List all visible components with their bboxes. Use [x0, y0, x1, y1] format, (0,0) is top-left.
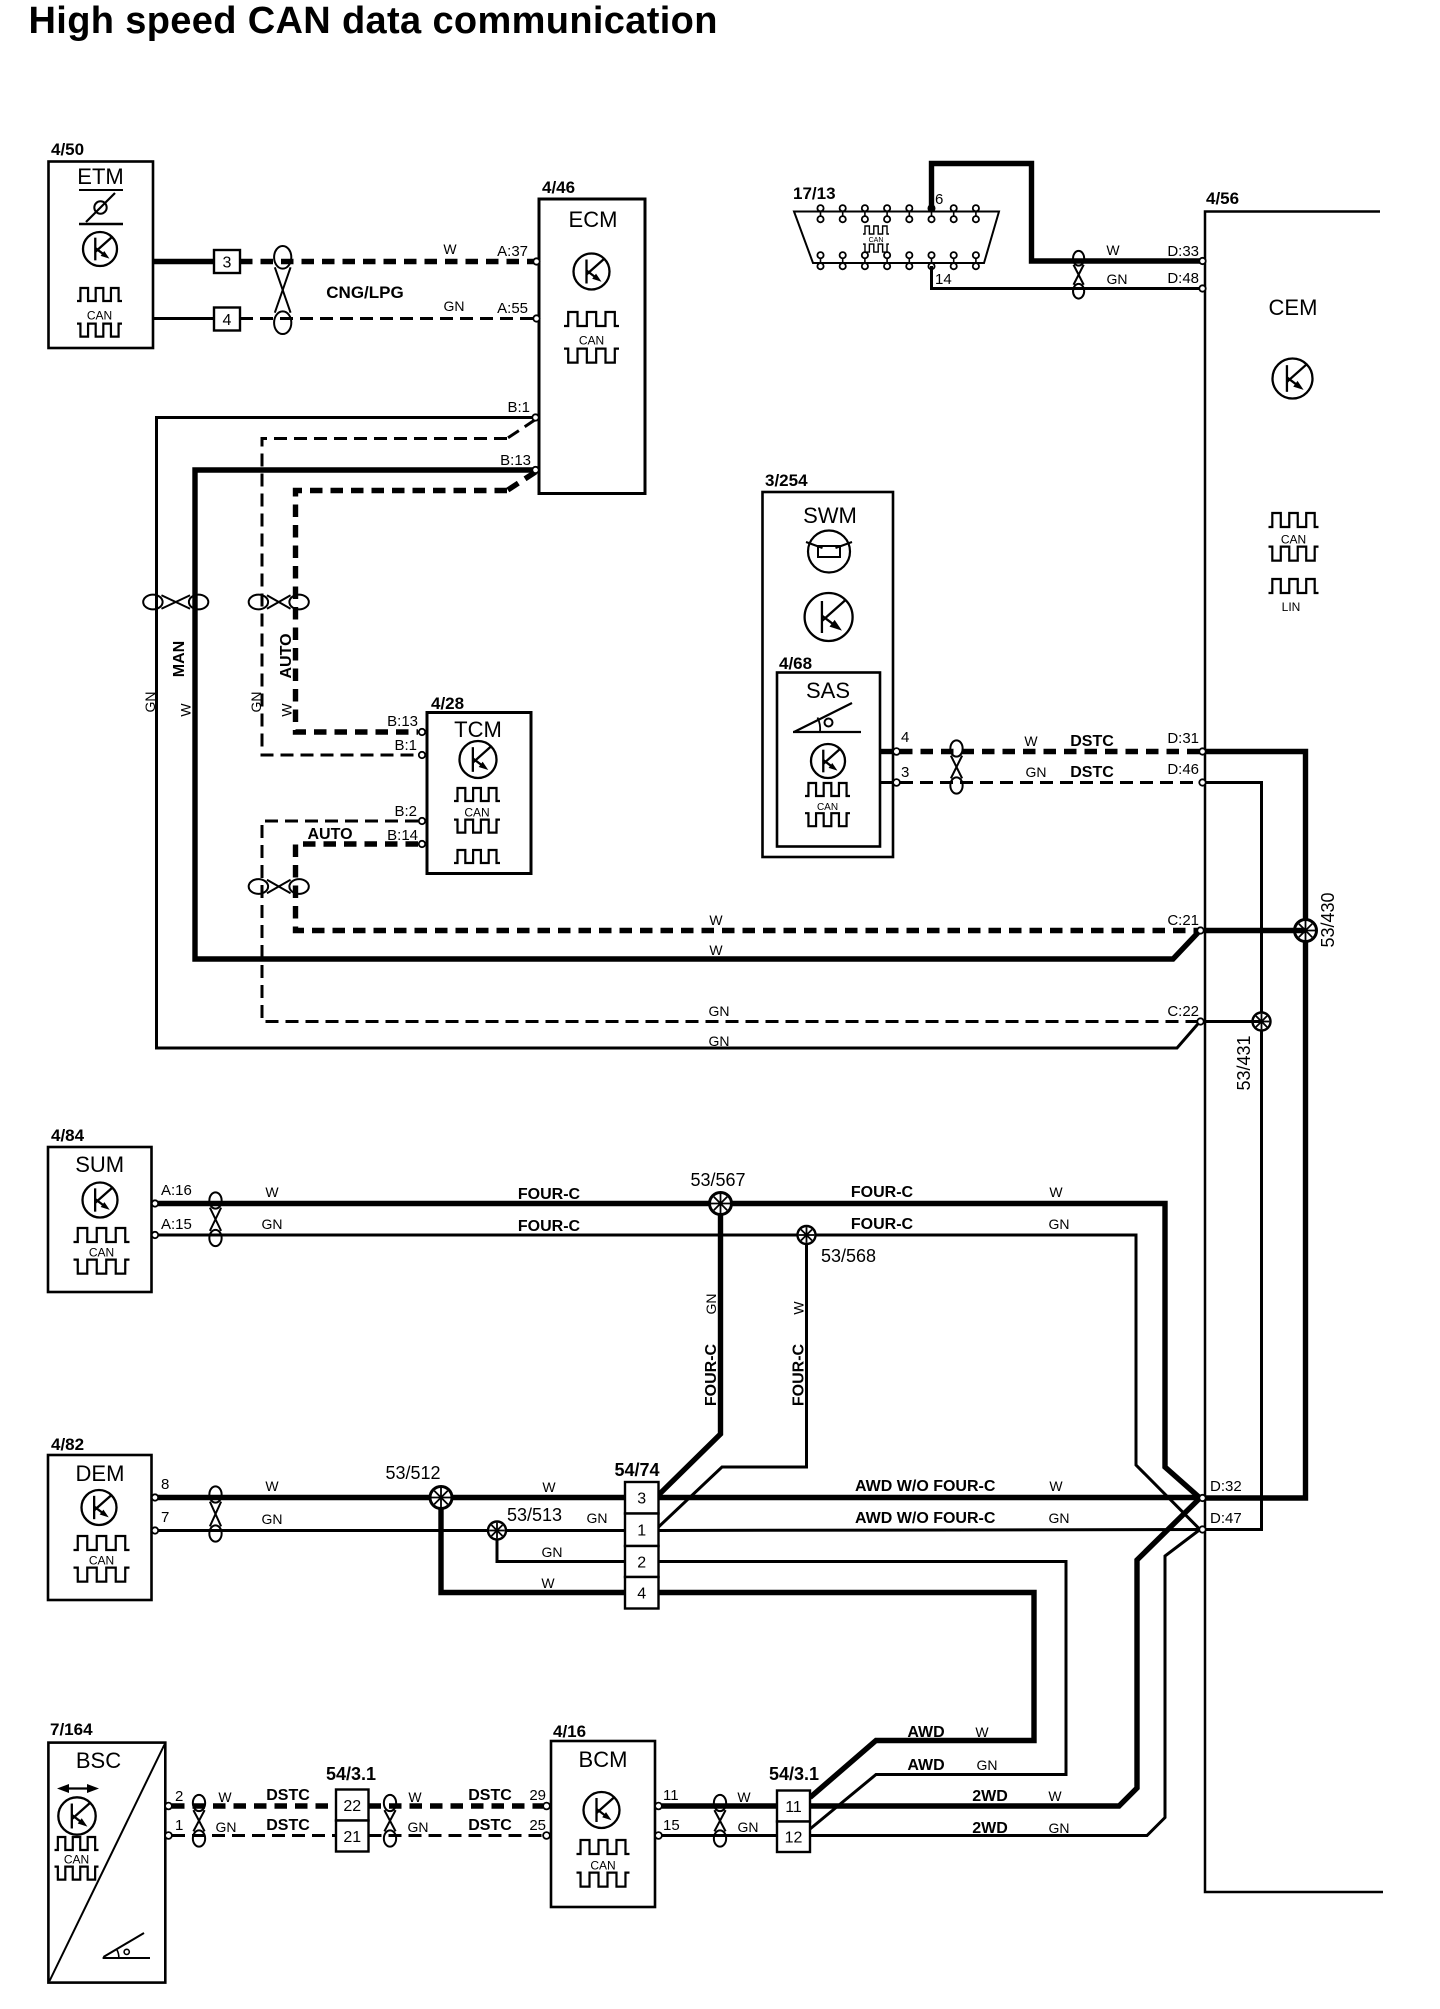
label A:15: [161, 1216, 192, 1233]
label DSTC (GN right): [468, 1817, 512, 1834]
connector 54/3.1 label (left): [326, 1764, 376, 1784]
label FOUR-C (W right): [851, 1184, 914, 1201]
label GN (DEM): [262, 1511, 283, 1527]
ETM throttle symbol: [79, 193, 123, 224]
label 53/431: [1234, 1035, 1254, 1090]
svg-text:GN: GN: [216, 1819, 237, 1835]
label GN (dashed C:22): [709, 1003, 730, 1019]
DEM pin 8: [152, 1494, 158, 1500]
svg-text:A:16: A:16: [161, 1182, 192, 1199]
label 2WD (W): [972, 1788, 1008, 1805]
ECM control-unit symbol: [574, 254, 610, 290]
svg-text:GN: GN: [248, 692, 264, 713]
svg-text:AWD: AWD: [907, 1724, 944, 1741]
connector 54/74 pin 1: [625, 1514, 659, 1547]
twisted pair CNG/LPG: [274, 246, 291, 334]
svg-text:4: 4: [901, 729, 909, 746]
BSC CAN symbol: [55, 1837, 99, 1880]
BCM module 4/16 box: [551, 1741, 655, 1907]
svg-text:2: 2: [637, 1554, 646, 1571]
svg-text:AWD W/O FOUR-C: AWD W/O FOUR-C: [855, 1478, 996, 1495]
ECM module 4/46 label: [542, 178, 575, 197]
twisted pair DSTC (SAS): [950, 740, 962, 793]
SAS control-unit symbol: [811, 744, 845, 778]
svg-text:GN: GN: [1049, 1820, 1070, 1836]
label A:16: [161, 1182, 192, 1199]
label pin 7: [161, 1509, 169, 1526]
SUM module 4/84 box: [48, 1147, 152, 1292]
wire C:22 to splice 53/431: [1204, 1020, 1262, 1023]
svg-text:CAN: CAN: [89, 1554, 114, 1568]
ECM module 4/46 box: [539, 199, 645, 494]
svg-text:ECM: ECM: [569, 207, 618, 232]
svg-text:AWD: AWD: [907, 1757, 944, 1774]
connector 54/3.1 pin 12: [777, 1822, 810, 1853]
DEM control-unit symbol: [82, 1490, 117, 1525]
wire W FOUR-C splice to CEM D:32: [731, 1204, 1200, 1499]
svg-text:4: 4: [223, 312, 232, 329]
wire W AUTO stub at ECM B:13: [507, 472, 536, 491]
label W (DSTC right): [408, 1789, 422, 1805]
label GN (AWD): [977, 1757, 998, 1773]
svg-text:22: 22: [343, 1798, 361, 1815]
SWM module 3/254 box: [763, 492, 894, 857]
label W (AWD): [975, 1724, 989, 1740]
label W (2WD): [1048, 1788, 1062, 1804]
svg-text:D:31: D:31: [1167, 730, 1199, 747]
wire W DSTC dashed to CEM D:31: [900, 749, 1200, 754]
svg-text:W: W: [178, 703, 194, 717]
label W (DEM): [265, 1478, 279, 1494]
svg-text:4/56: 4/56: [1206, 189, 1239, 208]
label W (D:33): [1106, 242, 1120, 258]
svg-text:12: 12: [785, 1830, 803, 1847]
wire ETM pin3 stub (W): [153, 259, 214, 264]
wire GN AUTO stub at ECM B:1: [507, 420, 536, 439]
svg-text:53/430: 53/430: [1318, 892, 1338, 947]
svg-text:11: 11: [785, 1799, 802, 1816]
svg-text:CEM: CEM: [1269, 295, 1318, 320]
connector 17/13 label: [793, 184, 836, 203]
svg-text:53/568: 53/568: [821, 1246, 876, 1266]
connector 54/74 pin 3: [625, 1482, 659, 1514]
wire GN AWD W/O FOUR-C to CEM D:47: [659, 1530, 1201, 1531]
svg-text:A:37: A:37: [497, 243, 528, 260]
svg-text:53/513: 53/513: [507, 1505, 562, 1525]
svg-text:B:1: B:1: [394, 737, 417, 754]
wire W CNG/LPG dashed to ECM A:37: [240, 259, 534, 264]
svg-text:TCM: TCM: [454, 717, 502, 742]
svg-text:W: W: [1048, 1788, 1062, 1804]
label GN (drop): [703, 1294, 719, 1315]
BCM pin 25: [543, 1832, 550, 1839]
label pin 1 (BSC): [175, 1817, 183, 1834]
DEM pin 7: [152, 1527, 158, 1533]
svg-text:53/512: 53/512: [385, 1463, 440, 1483]
svg-text:DSTC: DSTC: [468, 1787, 512, 1804]
wire W 54/74 pin4 to AWD W: [659, 1593, 1035, 1798]
svg-text:DSTC: DSTC: [266, 1787, 310, 1804]
svg-text:3: 3: [637, 1491, 646, 1508]
twisted pair BCM: [714, 1795, 726, 1847]
BSC angle-sensor symbol: [103, 1933, 150, 1958]
CEM module 4/56 outline: [1205, 212, 1383, 1893]
connector 54/3.1 pin 11: [777, 1791, 810, 1822]
svg-text:4/82: 4/82: [51, 1435, 84, 1454]
svg-text:ETM: ETM: [77, 164, 123, 189]
svg-text:LIN: LIN: [1282, 600, 1301, 614]
ETM module 4/50 label: [51, 140, 84, 159]
CEM pin C:21: [1197, 927, 1203, 933]
SUM control-unit symbol: [83, 1183, 118, 1218]
BSC double-arrow symbol: [57, 1784, 99, 1793]
label W (SUM): [265, 1184, 279, 1200]
SAS module 4/68 box: [777, 673, 880, 847]
wire W FOUR-C drop to 54/74 pin1: [659, 1244, 807, 1527]
twisted pair SUM: [209, 1192, 221, 1246]
ETM pin 3: [214, 250, 240, 273]
svg-text:C:22: C:22: [1167, 1003, 1199, 1020]
label AWD W/O FOUR-C (W): [855, 1478, 996, 1495]
label W: [443, 241, 457, 257]
label B:13: [500, 452, 531, 469]
label FOUR-C (drop left): [703, 1343, 720, 1406]
ETM module 4/50 box: [49, 162, 154, 349]
twisted pair DSTC (BSC): [193, 1795, 205, 1847]
wire GN 17/13 pin14 to CEM D:48: [932, 266, 1201, 289]
label A:37: [497, 243, 528, 260]
CEM pin D:33: [1199, 258, 1205, 264]
label 2WD (GN): [972, 1820, 1008, 1837]
svg-text:W: W: [265, 1184, 279, 1200]
svg-text:GN: GN: [587, 1510, 608, 1526]
svg-text:W: W: [265, 1478, 279, 1494]
connector 54/3.1 pin 22: [336, 1790, 369, 1821]
CEM pin D:46: [1199, 779, 1205, 785]
twisted pair AUTO upper: [249, 595, 309, 610]
connector 17/13 outline: [794, 212, 999, 264]
17/13 mini CAN symbol: [863, 226, 889, 252]
svg-text:FOUR-C: FOUR-C: [851, 1184, 914, 1201]
label GN (2WD): [1049, 1820, 1070, 1836]
svg-text:3: 3: [223, 254, 232, 271]
svg-text:GN: GN: [1049, 1216, 1070, 1232]
svg-text:GN: GN: [709, 1003, 730, 1019]
SWM module 3/254 label: [765, 471, 808, 490]
svg-text:CAN: CAN: [64, 1853, 89, 1867]
svg-text:GN: GN: [542, 1544, 563, 1560]
svg-text:GN: GN: [262, 1216, 283, 1232]
svg-text:GN: GN: [1049, 1510, 1070, 1526]
wire GN AUTO dashed TCM B:2 to CEM C:22: [262, 821, 1200, 1022]
svg-text:W: W: [737, 1789, 751, 1805]
label GN (MAN): [142, 692, 158, 713]
label GN (mid): [587, 1510, 608, 1526]
label GN (AWD W/O): [1049, 1510, 1070, 1526]
label D:47: [1210, 1510, 1242, 1527]
CEM pin D:31: [1199, 748, 1205, 754]
svg-text:D:46: D:46: [1167, 761, 1199, 778]
SAS pin 4: [893, 748, 900, 755]
label A:55: [497, 300, 528, 317]
CEM pin D:47: [1199, 1526, 1205, 1532]
svg-text:D:47: D:47: [1210, 1510, 1242, 1527]
connector 54/74 pin 2: [625, 1546, 659, 1577]
label B:13 (TCM): [387, 713, 418, 730]
label pin 8: [161, 1476, 169, 1493]
label pin 14: [935, 271, 952, 288]
CEM module 4/56 label: [1206, 189, 1239, 208]
BSC module 7/164 label: [50, 1720, 93, 1739]
splice 53/568: [798, 1226, 816, 1244]
splice 53/430: [1295, 920, 1317, 942]
label W (mid): [542, 1479, 556, 1495]
label 29: [529, 1787, 546, 1804]
DEM module 4/82 box: [48, 1455, 152, 1600]
label 53/430: [1318, 892, 1338, 947]
wire ETM pin4 stub (GN): [153, 317, 214, 320]
svg-text:W: W: [279, 703, 295, 717]
label GN (BCM): [738, 1819, 759, 1835]
svg-text:C:21: C:21: [1167, 912, 1199, 929]
connector 54/3.1 label (right): [769, 1764, 819, 1784]
label AWD (W): [907, 1724, 944, 1741]
label 53/512: [385, 1463, 440, 1483]
wire W DSTC 54/3.1 to BCM pin29: [369, 1803, 544, 1808]
svg-text:54/3.1: 54/3.1: [326, 1764, 376, 1784]
label B:1 (TCM): [394, 737, 417, 754]
svg-text:B:13: B:13: [387, 713, 418, 730]
BSC name: [76, 1748, 121, 1773]
label D:31: [1167, 730, 1199, 747]
TCM CAN symbol: [454, 788, 500, 833]
svg-text:W: W: [1024, 733, 1038, 749]
CEM control-unit symbol: [1273, 359, 1313, 399]
label pin 6: [935, 191, 943, 208]
svg-text:1: 1: [175, 1817, 183, 1834]
BSC pin 2: [165, 1803, 172, 1810]
svg-text:W: W: [542, 1479, 556, 1495]
TCM module 4/28 label: [431, 694, 464, 713]
wire GN BCM pin15 to 54/3.1 pin12: [662, 1834, 777, 1837]
svg-text:53/431: 53/431: [1234, 1035, 1254, 1090]
svg-text:4: 4: [637, 1586, 646, 1603]
svg-text:17/13: 17/13: [793, 184, 836, 203]
wire SAS pin3 stub: [880, 781, 894, 784]
BCM name: [579, 1747, 628, 1772]
svg-text:2WD: 2WD: [972, 1788, 1008, 1805]
TCM pin B:14: [419, 841, 425, 847]
svg-text:D:33: D:33: [1167, 243, 1199, 260]
BCM pin 29: [543, 1803, 550, 1810]
label AUTO upper: [278, 633, 295, 678]
BCM CAN symbol: [577, 1840, 630, 1887]
CEM LIN symbol: [1269, 579, 1319, 614]
svg-text:FOUR-C: FOUR-C: [518, 1218, 581, 1235]
label W (pin4 row): [541, 1575, 555, 1591]
svg-text:W: W: [1049, 1184, 1063, 1200]
svg-text:GN: GN: [703, 1294, 719, 1315]
label C:21: [1167, 912, 1199, 929]
label 53/568: [821, 1246, 876, 1266]
ETM control-unit symbol: [83, 232, 117, 266]
wire W AWD W/O FOUR-C to CEM D:32: [659, 1495, 1201, 1500]
BCM control-unit symbol: [584, 1792, 620, 1828]
wire W DEM pin8 to 54/74 pin3: [158, 1495, 625, 1500]
svg-text:7/164: 7/164: [50, 1720, 93, 1739]
svg-text:CAN: CAN: [1281, 533, 1306, 547]
CEM pin C:22: [1197, 1018, 1203, 1024]
SAS pin 3: [893, 779, 900, 786]
svg-text:2WD: 2WD: [972, 1820, 1008, 1837]
wire GN 2WD 54/3.1 pin12 to CEM D:47: [810, 1530, 1200, 1836]
svg-text:D:32: D:32: [1210, 1478, 1242, 1495]
SUM module 4/84 label: [51, 1126, 85, 1145]
label W (AWD W/O): [1049, 1478, 1063, 1494]
svg-text:A:55: A:55: [497, 300, 528, 317]
svg-text:W: W: [443, 241, 457, 257]
wire GN AUTO dashed ECM B:1 to TCM B:1: [262, 439, 507, 756]
label AWD W/O FOUR-C (GN): [855, 1510, 996, 1527]
label FOUR-C (W left): [518, 1186, 581, 1203]
svg-text:CAN: CAN: [590, 1859, 615, 1873]
ECM pin A:55: [533, 315, 539, 321]
ECM pin B:13: [532, 467, 538, 473]
svg-text:53/567: 53/567: [690, 1170, 745, 1190]
TCM module 4/28 box: [427, 713, 531, 874]
wire W DSTC BSC to 54/3.1 pin22: [172, 1803, 336, 1808]
BSC module 7/164 box: [48, 1743, 165, 1983]
label GN (DSTC left): [216, 1819, 237, 1835]
label FOUR-C (drop right): [791, 1343, 808, 1406]
TCM pin B:13: [419, 729, 425, 735]
svg-text:W: W: [1106, 242, 1120, 258]
svg-text:FOUR-C: FOUR-C: [791, 1343, 808, 1406]
label D:48: [1167, 270, 1199, 287]
svg-text:W: W: [975, 1724, 989, 1740]
wire GN 54/74 pin2 to AWD GN: [659, 1562, 1067, 1830]
svg-text:FOUR-C: FOUR-C: [851, 1216, 914, 1233]
label AWD (GN): [907, 1757, 944, 1774]
svg-text:7: 7: [161, 1509, 169, 1526]
wire W 17/13 pin6 to CEM D:33: [932, 164, 1201, 262]
SAS CAN symbol: [805, 783, 850, 826]
ECM pin B:1: [532, 414, 538, 420]
svg-text:DSTC: DSTC: [1070, 764, 1114, 781]
svg-text:BSC: BSC: [76, 1748, 121, 1773]
svg-text:CAN: CAN: [869, 237, 884, 244]
svg-text:D:48: D:48: [1167, 270, 1199, 287]
label pin 2 (BSC): [175, 1788, 183, 1805]
wire C:21 to splice 53/430: [1204, 928, 1306, 933]
SUM CAN symbol: [74, 1228, 130, 1274]
svg-text:CAN: CAN: [89, 1246, 114, 1260]
wire GN FOUR-C splice to CEM D:47: [815, 1235, 1200, 1530]
label GN (solid C:22): [709, 1033, 730, 1049]
svg-text:4/16: 4/16: [553, 1722, 586, 1741]
TCM control-unit symbol: [460, 741, 497, 778]
TCM extra pulse symbol: [454, 850, 500, 863]
SAS angle-sensor symbol: [793, 703, 861, 732]
label DSTC (W left): [266, 1787, 310, 1804]
connector 54/74 pin 4: [625, 1577, 659, 1609]
label GN (DSTC right): [408, 1819, 429, 1835]
svg-text:FOUR-C: FOUR-C: [703, 1343, 720, 1406]
wire GN MAN from ECM B:1: [157, 418, 1201, 1049]
svg-text:GN: GN: [262, 1511, 283, 1527]
wire GN DSTC BSC to 54/3.1 pin21: [172, 1834, 336, 1837]
ETM pin 4: [214, 308, 240, 331]
svg-text:GN: GN: [738, 1819, 759, 1835]
label GN (D:46): [1026, 764, 1047, 780]
DEM module 4/82 label: [51, 1435, 84, 1454]
DEM CAN symbol: [74, 1536, 130, 1582]
BCM pin 15: [655, 1832, 662, 1839]
TCM name: [454, 717, 502, 742]
ECM CAN symbol: [564, 312, 619, 363]
CEM pin D:32: [1199, 1495, 1205, 1501]
label DSTC (W right): [468, 1787, 512, 1804]
twisted pair 17/13: [1073, 251, 1084, 299]
svg-text:W: W: [709, 942, 723, 958]
svg-text:4/68: 4/68: [779, 654, 812, 673]
label W (dashed C:21): [709, 912, 723, 928]
label GN (AUTO): [248, 692, 264, 713]
splice 53/567: [710, 1193, 732, 1215]
twisted pair DEM: [209, 1486, 221, 1541]
svg-text:B:2: B:2: [394, 803, 417, 820]
SUM pin A:16: [152, 1200, 158, 1206]
svg-text:CAN: CAN: [464, 806, 489, 820]
wire SAS pin4 stub: [880, 749, 894, 754]
wire GN D:46 to splice 53/431 and D:47: [1200, 783, 1262, 1530]
svg-text:B:13: B:13: [500, 452, 531, 469]
BSC pin 1: [165, 1832, 172, 1839]
SAS module 4/68 label: [779, 654, 812, 673]
wire GN DEM pin7 to 54/74 pin1: [158, 1529, 625, 1532]
label CNG/LPG: [326, 283, 403, 302]
label DSTC (GN): [1070, 764, 1114, 781]
svg-text:DSTC: DSTC: [1070, 733, 1114, 750]
svg-text:4/46: 4/46: [542, 178, 575, 197]
label W (solid C:21): [709, 942, 723, 958]
label D:46: [1167, 761, 1199, 778]
splice 53/512: [430, 1487, 452, 1509]
svg-text:4/28: 4/28: [431, 694, 464, 713]
SAS name: [806, 678, 850, 703]
label W (D:31): [1024, 733, 1038, 749]
label GN (pin2 row): [542, 1544, 563, 1560]
wire W AUTO dashed ECM B:13 to TCM B:13: [296, 491, 508, 733]
label DSTC (W): [1070, 733, 1114, 750]
svg-text:14: 14: [935, 271, 952, 288]
svg-text:FOUR-C: FOUR-C: [518, 1186, 581, 1203]
label 53/513: [507, 1505, 562, 1525]
svg-text:W: W: [218, 1789, 232, 1805]
label MAN: [171, 641, 188, 677]
wire GN DSTC 54/3.1 to BCM pin25: [369, 1834, 544, 1837]
svg-text:3: 3: [901, 764, 909, 781]
label C:22: [1167, 1003, 1199, 1020]
label pin 3 (SAS): [901, 764, 909, 781]
svg-text:21: 21: [343, 1829, 361, 1846]
twisted pair MAN: [143, 595, 208, 610]
label GN (D:48): [1107, 271, 1128, 287]
svg-text:A:15: A:15: [161, 1216, 192, 1233]
SUM pin A:15: [152, 1232, 158, 1238]
ETM name: [77, 164, 123, 190]
ECM name: [569, 207, 618, 232]
